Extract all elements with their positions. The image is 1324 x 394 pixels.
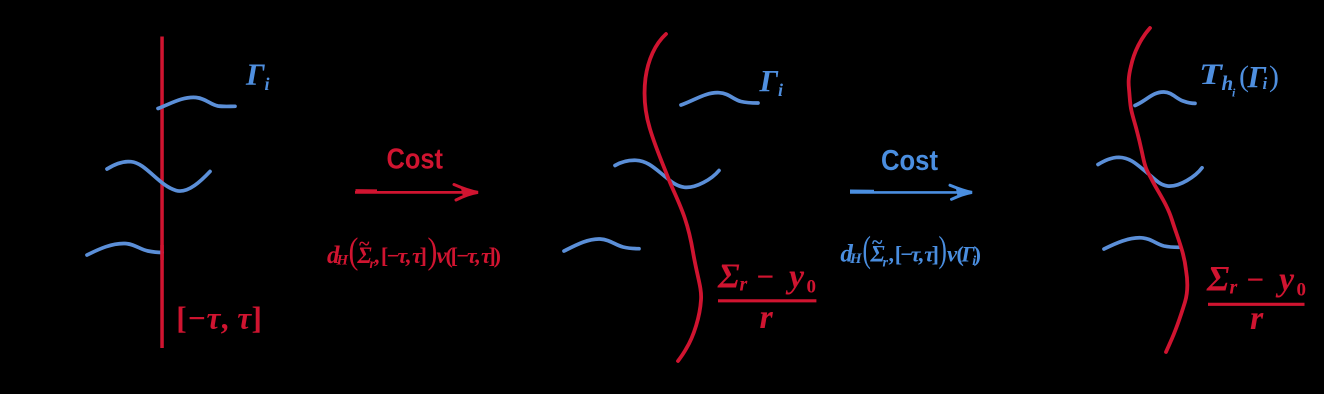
middle panel label Gamma_i <box>759 63 784 100</box>
svg-text:0: 0 <box>1297 280 1307 301</box>
svg-text:i: i <box>265 74 270 94</box>
red cost formula d_H(Sigma~_r,[-tau,tau]) nu([-tau,tau]) <box>327 231 501 272</box>
svg-text:[−τ, τ]: [−τ, τ] <box>176 301 262 336</box>
right panel: blue curve bottom <box>1104 238 1179 249</box>
right panel red fraction (Sigma_r - y_0)/r <box>1206 259 1306 338</box>
left panel label Gamma_i <box>245 57 270 95</box>
svg-text:): ) <box>939 229 947 270</box>
svg-text:r: r <box>760 299 774 336</box>
svg-text:−: − <box>757 259 775 294</box>
svg-text:, [−τ, τ]: , [−τ, τ] <box>374 243 427 268</box>
middle panel: blue curve middle <box>615 160 719 187</box>
left panel: blue curve bottom <box>87 243 162 255</box>
svg-text:Γ: Γ <box>759 63 779 98</box>
svg-text:): ) <box>1269 60 1279 93</box>
svg-text:H: H <box>849 251 863 267</box>
svg-text:T: T <box>1199 58 1223 91</box>
blue arrow <box>850 191 968 194</box>
red arrow <box>355 191 474 194</box>
svg-text:(Γi): (Γi) <box>957 242 982 270</box>
right panel: blue curve top <box>1135 92 1195 106</box>
right panel label T_{h_i}(Gamma_i) <box>1199 58 1279 99</box>
svg-text:H: H <box>336 253 350 269</box>
svg-text:Cost: Cost <box>881 145 938 177</box>
right panel: red curve <box>1129 28 1188 352</box>
blue cost formula d_H(Sigma~_r,[-tau,tau]) nu(Gamma_i) <box>840 229 981 271</box>
svg-text:([−τ, τ]): ([−τ, τ]) <box>446 243 502 268</box>
svg-text:, [−τ, τ]: , [−τ, τ] <box>889 242 940 267</box>
svg-text:Cost: Cost <box>387 144 444 176</box>
svg-text:r: r <box>1250 300 1264 337</box>
svg-text:Σ: Σ <box>1206 259 1229 299</box>
middle panel red fraction (Sigma_r - y_0)/r <box>717 257 816 337</box>
svg-text:Γ: Γ <box>245 57 265 92</box>
left panel: red vertical segment [-tau,tau] <box>160 37 164 349</box>
svg-text:0: 0 <box>807 277 817 298</box>
svg-text:i: i <box>1263 74 1268 93</box>
left panel: blue curve top (Gamma_i) <box>158 97 235 108</box>
right panel: blue curve middle <box>1098 157 1202 186</box>
svg-text:~: ~ <box>872 232 883 254</box>
middle panel: red curve <box>645 34 702 361</box>
middle panel: blue curve top (Gamma_i) <box>681 93 758 105</box>
svg-text:i: i <box>778 80 783 100</box>
middle panel: blue curve bottom <box>564 239 639 251</box>
svg-text:r: r <box>1230 277 1238 299</box>
wire: red line overlay over bottom-left crossing <box>160 245 164 260</box>
svg-text:~: ~ <box>359 233 370 255</box>
left panel: blue curve middle <box>107 162 210 191</box>
svg-text:−: − <box>1247 262 1265 297</box>
svg-text:r: r <box>740 274 748 296</box>
svg-text:Σ: Σ <box>717 257 740 296</box>
